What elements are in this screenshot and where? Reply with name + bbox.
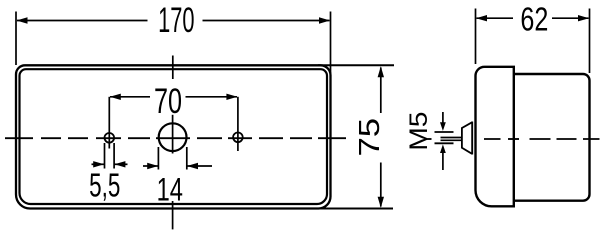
dimension 170 extension line left bbox=[15, 12, 17, 66]
dimension 62 arrow left bbox=[476, 15, 487, 21]
bottom edge extension line to 75 dimension bbox=[316, 208, 393, 210]
vertical centerline above centre hole bbox=[172, 56, 174, 80]
M5 stud thread minor line lower bbox=[441, 139, 462, 141]
vertical centerline through centre hole bbox=[172, 115, 174, 154]
svg-text:14: 14 bbox=[157, 172, 183, 207]
side view lens outline bbox=[476, 67, 514, 207]
dimension 62 extension line right bbox=[589, 9, 591, 74]
dimension 70 extension line left (through left hole) bbox=[108, 97, 110, 149]
dimension 5.5 arrow right bbox=[115, 163, 128, 165]
dimension 70 extension line right (through right hole) bbox=[237, 97, 239, 151]
dimension 170 extension line right bbox=[330, 12, 332, 80]
centre hole dia 14 bbox=[159, 123, 187, 151]
stud boss cone bbox=[462, 122, 472, 154]
top edge extension line to 75 dimension bbox=[318, 64, 394, 66]
M5 stud bottom line bbox=[435, 142, 454, 144]
svg-text:M5: M5 bbox=[404, 112, 432, 151]
horizontal centerline of front view bbox=[5, 137, 346, 139]
right hole dia 5.5 bbox=[233, 133, 243, 143]
dimension 14 tangent line right bbox=[186, 147, 188, 170]
dimension 70 line bbox=[110, 96, 150, 98]
dimension 170 line bbox=[17, 20, 148, 22]
vertical centerline below front view bbox=[172, 201, 174, 229]
M5 stud top line bbox=[435, 131, 454, 133]
svg-text:62: 62 bbox=[520, 1, 548, 38]
svg-text:70: 70 bbox=[154, 82, 182, 121]
dimension 14 tangent line left bbox=[157, 147, 159, 170]
dimension 170 arrow left bbox=[17, 17, 28, 23]
dimension 5.5 tangent line right bbox=[113, 143, 115, 169]
lamp front view outer outline bbox=[16, 65, 331, 208]
side view horizontal centerline bbox=[427, 138, 600, 140]
svg-text:170: 170 bbox=[158, 0, 194, 40]
dimension 70 arrow right bbox=[226, 94, 237, 100]
dimension 75 arrow up bbox=[378, 66, 384, 77]
lamp front view inner outline bbox=[20, 69, 328, 204]
dimension 5.5 tangent line left bbox=[104, 143, 106, 169]
dimension 14 arrow left bbox=[143, 165, 158, 167]
M5 arrow up bbox=[442, 151, 444, 170]
left hole dia 5.5 bbox=[105, 133, 115, 143]
svg-text:5,5: 5,5 bbox=[89, 167, 120, 205]
dimension 14 arrow right bbox=[187, 165, 212, 167]
stud boss right edge bbox=[471, 122, 473, 155]
dimension 62 line bbox=[477, 17, 514, 19]
dimension 170 arrow right bbox=[319, 17, 330, 23]
dimension 5.5 arrow left bbox=[92, 163, 105, 165]
dimension 62 extension line left bbox=[475, 9, 477, 65]
dimension 70 arrow left bbox=[110, 94, 121, 100]
svg-text:75: 75 bbox=[353, 118, 385, 157]
side view body outline bbox=[514, 74, 590, 201]
dimension 75 line with arrows bbox=[380, 68, 382, 114]
dimension 75 arrow down bbox=[378, 197, 384, 208]
M5 stud thread minor line upper bbox=[441, 137, 462, 139]
M5 arrow down bbox=[442, 112, 444, 124]
dimension 62 arrow right bbox=[578, 15, 589, 21]
